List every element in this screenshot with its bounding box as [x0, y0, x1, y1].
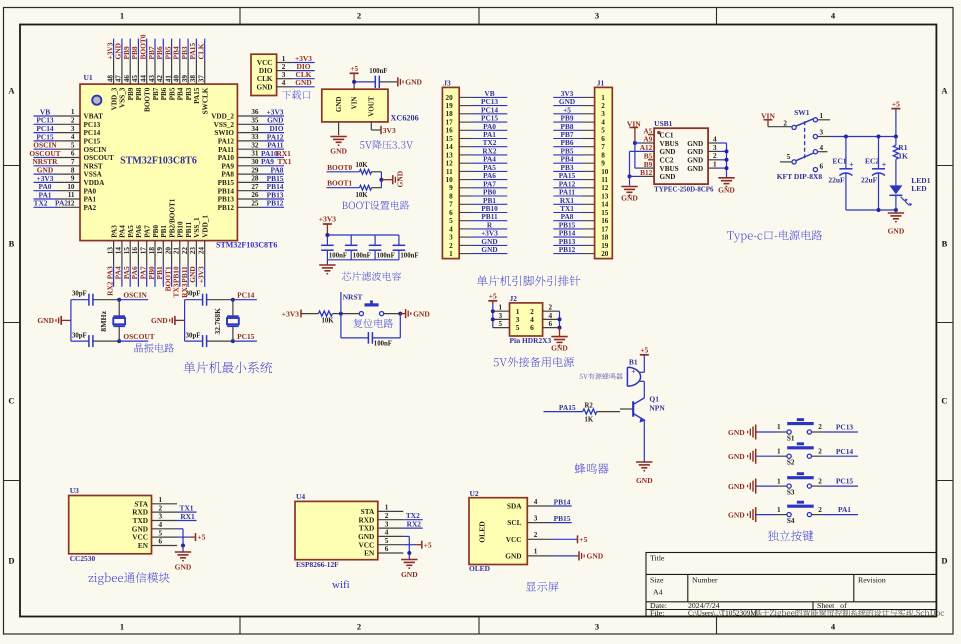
svg-text:KFT DIP-8X8: KFT DIP-8X8 — [777, 172, 823, 181]
svg-text:PA11: PA11 — [218, 146, 234, 154]
svg-text:8: 8 — [601, 151, 605, 159]
svg-text:4: 4 — [601, 119, 605, 127]
svg-text:PA10: PA10 — [218, 154, 235, 162]
svg-text:48: 48 — [106, 75, 114, 83]
svg-text:29: 29 — [251, 166, 259, 174]
svg-text:TYPEC-250D-8CP6: TYPEC-250D-8CP6 — [654, 186, 714, 193]
svg-text:Pin HDR2X3: Pin HDR2X3 — [510, 336, 552, 345]
svg-text:GND: GND — [175, 563, 192, 572]
svg-text:19: 19 — [601, 242, 609, 250]
svg-text:10K: 10K — [356, 192, 369, 199]
svg-text:Size: Size — [650, 576, 664, 585]
svg-text:PA15: PA15 — [559, 403, 576, 412]
svg-text:5: 5 — [787, 153, 791, 161]
svg-text:+3V3: +3V3 — [282, 309, 299, 318]
svg-text:PA15: PA15 — [193, 87, 201, 104]
svg-text:PB13: PB13 — [218, 196, 235, 204]
svg-text:2: 2 — [159, 504, 163, 512]
svg-text:File:: File: — [650, 609, 664, 618]
svg-text:PB0: PB0 — [152, 225, 160, 238]
svg-text:100nF: 100nF — [377, 252, 395, 259]
svg-text:18: 18 — [446, 110, 454, 118]
svg-text:1: 1 — [777, 477, 781, 485]
svg-text:1: 1 — [449, 250, 453, 258]
svg-text:1K: 1K — [898, 152, 908, 161]
svg-text:15: 15 — [123, 247, 131, 255]
svg-text:3: 3 — [713, 144, 717, 152]
svg-text:2: 2 — [385, 512, 389, 520]
svg-text:GND: GND — [405, 78, 422, 87]
svg-text:VDD_2: VDD_2 — [211, 113, 234, 121]
svg-text:GND: GND — [728, 428, 745, 437]
svg-text:S2: S2 — [787, 459, 795, 467]
svg-text:R2: R2 — [585, 403, 594, 410]
svg-text:+5: +5 — [892, 99, 900, 108]
svg-text:3: 3 — [282, 71, 286, 79]
svg-text:VBAT: VBAT — [84, 113, 104, 121]
svg-text:2: 2 — [818, 477, 822, 485]
svg-text:VDD_3: VDD_3 — [110, 87, 118, 110]
svg-text:3: 3 — [385, 520, 389, 528]
svg-text:46: 46 — [123, 75, 131, 83]
svg-text:EC2: EC2 — [865, 156, 879, 165]
svg-text:14: 14 — [601, 201, 609, 209]
svg-text:5: 5 — [516, 323, 520, 332]
svg-text:GND: GND — [728, 482, 745, 491]
svg-text:S3: S3 — [787, 489, 795, 497]
svg-text:PC14: PC14 — [84, 129, 101, 137]
svg-text:VBUS: VBUS — [660, 165, 679, 173]
svg-text:11: 11 — [446, 168, 453, 176]
svg-text:+5: +5 — [424, 540, 432, 549]
svg-text:3: 3 — [159, 513, 163, 521]
svg-text:2: 2 — [818, 423, 822, 431]
svg-text:PA2: PA2 — [55, 199, 68, 208]
svg-text:PA2: PA2 — [84, 204, 97, 212]
svg-text:100nF: 100nF — [400, 252, 418, 259]
svg-text:GND: GND — [687, 148, 703, 156]
svg-text:4: 4 — [282, 79, 286, 87]
svg-text:22: 22 — [181, 247, 189, 255]
svg-text:2: 2 — [818, 447, 822, 455]
svg-text:3: 3 — [71, 125, 75, 133]
svg-text:CC2: CC2 — [660, 157, 674, 165]
svg-text:PA4: PA4 — [119, 225, 127, 238]
svg-text:GND: GND — [151, 316, 168, 325]
svg-text:36: 36 — [251, 108, 259, 116]
svg-text:VSSA: VSSA — [84, 171, 103, 179]
svg-text:12: 12 — [67, 200, 75, 208]
svg-text:GND: GND — [413, 309, 430, 318]
svg-text:A: A — [941, 86, 948, 96]
svg-text:C: C — [8, 396, 14, 406]
svg-text:2: 2 — [357, 622, 361, 632]
svg-text:7: 7 — [601, 143, 605, 151]
svg-text:NPN: NPN — [649, 404, 665, 413]
svg-text:2: 2 — [282, 63, 286, 71]
svg-text:U1: U1 — [84, 73, 93, 82]
svg-text:SW1: SW1 — [794, 108, 810, 117]
svg-text:PA1: PA1 — [84, 196, 97, 204]
svg-text:LED: LED — [911, 184, 927, 193]
svg-text:U4: U4 — [296, 492, 305, 501]
svg-text:PB12: PB12 — [218, 204, 235, 212]
svg-text:5: 5 — [385, 537, 389, 545]
svg-text:PB15: PB15 — [218, 179, 235, 187]
svg-text:7: 7 — [71, 158, 75, 166]
svg-text:C: C — [941, 396, 947, 406]
svg-text:GND: GND — [396, 170, 405, 187]
svg-text:R1: R1 — [898, 143, 907, 152]
svg-text:45: 45 — [131, 75, 139, 83]
svg-text:17: 17 — [140, 247, 148, 255]
svg-text:VIN: VIN — [350, 97, 358, 110]
svg-text:13: 13 — [601, 192, 609, 200]
svg-text:+3V3: +3V3 — [197, 266, 206, 283]
svg-text:GND: GND — [687, 165, 703, 173]
svg-text:6: 6 — [820, 163, 824, 171]
svg-text:30pF: 30pF — [72, 333, 87, 340]
svg-text:2: 2 — [357, 11, 361, 21]
svg-text:22uF: 22uF — [828, 175, 845, 184]
svg-text:STM32F103C8T6: STM32F103C8T6 — [120, 156, 197, 167]
svg-text:2: 2 — [71, 117, 75, 125]
svg-text:35: 35 — [251, 117, 259, 125]
svg-text:32: 32 — [251, 141, 259, 149]
svg-text:VCC: VCC — [506, 535, 522, 544]
svg-text:44: 44 — [140, 75, 148, 83]
svg-text:8MHz: 8MHz — [99, 310, 108, 331]
svg-text:J3: J3 — [443, 79, 451, 88]
svg-text:39: 39 — [181, 75, 189, 83]
svg-text:J1: J1 — [597, 79, 605, 88]
svg-text:PC13: PC13 — [84, 121, 101, 129]
svg-text:1: 1 — [713, 161, 717, 169]
svg-text:PC15: PC15 — [84, 138, 101, 146]
svg-text:RX1: RX1 — [180, 512, 195, 521]
svg-text:+: + — [849, 160, 854, 169]
svg-text:Sheet of: Sheet of — [817, 601, 847, 610]
svg-text:OSCOUT: OSCOUT — [123, 332, 154, 341]
svg-text:2: 2 — [818, 506, 822, 514]
svg-text:PC13: PC13 — [836, 423, 854, 432]
svg-text:GND: GND — [687, 140, 703, 148]
svg-text:13: 13 — [446, 151, 454, 159]
svg-text:BOOT0: BOOT0 — [144, 87, 152, 112]
svg-text:4: 4 — [159, 521, 163, 529]
svg-text:Revision: Revision — [858, 576, 886, 585]
svg-text:41: 41 — [164, 75, 172, 83]
svg-text:15: 15 — [601, 209, 609, 217]
svg-text:CLK: CLK — [197, 43, 206, 59]
svg-text:1: 1 — [120, 11, 124, 21]
svg-text:100nF: 100nF — [353, 252, 371, 259]
svg-text:10K: 10K — [322, 317, 335, 324]
svg-text:PA3: PA3 — [105, 266, 114, 279]
svg-text:40: 40 — [173, 75, 181, 83]
svg-text:BOOT0: BOOT0 — [327, 163, 352, 172]
svg-text:OSCIN: OSCIN — [123, 290, 147, 299]
svg-text:33: 33 — [251, 133, 259, 141]
svg-text:5: 5 — [159, 529, 163, 537]
svg-text:TX1: TX1 — [278, 157, 292, 166]
svg-text:6: 6 — [549, 320, 553, 328]
svg-text:PB7: PB7 — [152, 87, 160, 100]
svg-text:1K: 1K — [585, 416, 594, 423]
svg-text:PA6: PA6 — [135, 225, 143, 238]
svg-text:GND: GND — [660, 148, 676, 156]
svg-text:NRST: NRST — [84, 162, 103, 170]
svg-text:32.768K: 32.768K — [213, 308, 222, 335]
svg-text:100nF: 100nF — [329, 252, 347, 259]
svg-text:PB5: PB5 — [168, 87, 176, 100]
svg-text:+5: +5 — [350, 64, 358, 73]
svg-text:SWCLK: SWCLK — [202, 87, 210, 114]
svg-text:1: 1 — [777, 447, 781, 455]
svg-text:42: 42 — [156, 75, 164, 83]
svg-text:B: B — [942, 239, 948, 249]
svg-text:24: 24 — [198, 247, 206, 255]
svg-text:GND: GND — [401, 570, 418, 579]
svg-text:PA0: PA0 — [84, 187, 97, 195]
svg-text:PA8: PA8 — [221, 171, 234, 179]
svg-text:10K: 10K — [356, 162, 369, 169]
svg-text:GND: GND — [295, 78, 311, 87]
svg-text:PA9: PA9 — [261, 157, 274, 166]
svg-text:GND: GND — [888, 226, 905, 235]
svg-text:U2: U2 — [470, 489, 479, 498]
svg-text:22uF: 22uF — [861, 175, 878, 184]
svg-text:3: 3 — [534, 514, 538, 522]
svg-text:+3V3: +3V3 — [319, 215, 336, 224]
svg-text:OLED: OLED — [469, 564, 490, 573]
svg-text:VCC: VCC — [257, 59, 273, 67]
svg-text:VDD_1: VDD_1 — [202, 215, 210, 238]
svg-text:S4: S4 — [787, 517, 795, 525]
svg-text:9: 9 — [71, 175, 75, 183]
svg-text:PA3: PA3 — [110, 225, 118, 238]
svg-text:1: 1 — [777, 506, 781, 514]
svg-text:6: 6 — [159, 538, 163, 546]
svg-text:GND: GND — [551, 344, 568, 353]
svg-text:PA7: PA7 — [144, 225, 152, 238]
svg-text:C:\Users\..\T1052309M: C:\Users\..\T1052309M — [688, 610, 757, 618]
svg-text:PB14: PB14 — [554, 497, 571, 506]
svg-text:6: 6 — [385, 545, 389, 553]
svg-text:GND: GND — [335, 97, 343, 113]
svg-text:16: 16 — [446, 127, 454, 135]
svg-text:SCL: SCL — [507, 518, 521, 527]
svg-text:VSS_3: VSS_3 — [119, 87, 127, 108]
svg-text:OSCIN: OSCIN — [84, 146, 108, 154]
svg-text:VSS_1: VSS_1 — [193, 217, 201, 238]
svg-text:10: 10 — [67, 183, 75, 191]
svg-text:SDA: SDA — [507, 502, 522, 511]
svg-text:6: 6 — [71, 150, 75, 158]
svg-text:30: 30 — [251, 158, 259, 166]
svg-text:PB14: PB14 — [218, 187, 235, 195]
svg-text:+5: +5 — [197, 533, 205, 542]
svg-text:19: 19 — [446, 102, 454, 110]
svg-text:PB12: PB12 — [267, 199, 284, 208]
svg-text:13: 13 — [106, 247, 114, 255]
svg-text:2: 2 — [549, 304, 553, 312]
svg-text:U3: U3 — [70, 486, 79, 495]
svg-text:14: 14 — [115, 247, 123, 255]
svg-text:A4: A4 — [653, 588, 663, 597]
svg-text:12: 12 — [446, 160, 454, 168]
svg-text:CLK: CLK — [257, 75, 273, 83]
svg-text:5: 5 — [449, 217, 453, 225]
svg-text:+: + — [882, 160, 887, 169]
svg-text:25: 25 — [251, 200, 259, 208]
svg-text:RX2: RX2 — [407, 519, 422, 528]
svg-text:3: 3 — [499, 312, 503, 320]
svg-text:4: 4 — [71, 133, 75, 141]
svg-text:20: 20 — [164, 247, 172, 255]
svg-text:8: 8 — [71, 166, 75, 174]
svg-text:14: 14 — [446, 143, 454, 151]
svg-text:12: 12 — [601, 184, 609, 192]
svg-text:30pF: 30pF — [186, 290, 201, 297]
svg-text:1: 1 — [159, 496, 163, 504]
svg-text:20: 20 — [601, 250, 609, 258]
svg-text:EC1: EC1 — [832, 156, 846, 165]
svg-text:NRST: NRST — [343, 292, 363, 301]
svg-text:10: 10 — [446, 176, 454, 184]
svg-text:Number: Number — [692, 576, 718, 585]
svg-text:1: 1 — [601, 94, 605, 102]
svg-text:+: + — [631, 366, 635, 375]
svg-text:VBUS: VBUS — [660, 140, 679, 148]
svg-text:B: B — [9, 239, 15, 249]
svg-text:16: 16 — [131, 247, 139, 255]
svg-text:GND: GND — [505, 552, 521, 561]
svg-text:GND: GND — [636, 476, 653, 485]
svg-text:PB11: PB11 — [180, 266, 189, 283]
svg-text:D: D — [8, 556, 14, 566]
svg-text:28: 28 — [251, 175, 259, 183]
svg-text:1: 1 — [120, 622, 124, 632]
svg-text:1: 1 — [820, 112, 824, 120]
svg-text:37: 37 — [198, 75, 206, 83]
svg-text:PB1: PB1 — [160, 225, 168, 238]
svg-text:26: 26 — [251, 191, 259, 199]
svg-text:4: 4 — [534, 498, 538, 506]
svg-text:7: 7 — [449, 201, 453, 209]
svg-text:17: 17 — [446, 119, 454, 127]
svg-text:38: 38 — [189, 75, 197, 83]
svg-text:wifi: wifi — [332, 579, 350, 591]
svg-text:S1: S1 — [787, 434, 795, 442]
svg-text:PC14: PC14 — [237, 290, 255, 299]
svg-text:8: 8 — [449, 192, 453, 200]
svg-text:GND: GND — [481, 245, 497, 254]
svg-text:PA1: PA1 — [838, 505, 851, 514]
svg-text:100nF: 100nF — [369, 68, 387, 75]
svg-text:15: 15 — [446, 135, 454, 143]
svg-text:GND: GND — [728, 510, 745, 519]
svg-text:PA12: PA12 — [218, 138, 235, 146]
svg-text:ESP8266-12F: ESP8266-12F — [296, 560, 339, 569]
svg-text:1: 1 — [777, 423, 781, 431]
svg-text:GND: GND — [257, 83, 273, 91]
svg-text:GND: GND — [37, 316, 54, 325]
svg-text:CC2530: CC2530 — [70, 554, 96, 563]
svg-text:10: 10 — [601, 168, 609, 176]
svg-text:100nF: 100nF — [374, 340, 392, 347]
svg-text:4: 4 — [549, 312, 553, 320]
svg-text:GND: GND — [687, 157, 703, 165]
svg-text:1: 1 — [385, 504, 389, 512]
svg-text:PB6: PB6 — [160, 87, 168, 100]
svg-text:47: 47 — [115, 75, 123, 83]
svg-text:18: 18 — [148, 247, 156, 255]
svg-text:5: 5 — [499, 320, 503, 328]
svg-text:2: 2 — [783, 120, 787, 128]
svg-text:3: 3 — [595, 622, 599, 632]
svg-text:4: 4 — [449, 225, 453, 233]
svg-text:PB9: PB9 — [127, 87, 135, 100]
svg-text:23: 23 — [189, 247, 197, 255]
svg-text:43: 43 — [148, 75, 156, 83]
svg-text:19: 19 — [156, 247, 164, 255]
svg-text:TX2: TX2 — [34, 199, 48, 208]
svg-text:EN: EN — [364, 549, 375, 558]
svg-text:30pF: 30pF — [72, 290, 87, 297]
svg-text:B12: B12 — [640, 168, 653, 177]
svg-text:GND: GND — [587, 552, 604, 561]
svg-text:2: 2 — [449, 242, 453, 250]
svg-text:3: 3 — [820, 128, 824, 136]
svg-text:PB12: PB12 — [559, 245, 576, 254]
svg-text:1: 1 — [282, 55, 286, 63]
svg-text:PC15: PC15 — [237, 332, 255, 341]
svg-text:PB3: PB3 — [185, 87, 193, 100]
svg-text:PC14: PC14 — [836, 447, 854, 456]
svg-text:+5: +5 — [640, 346, 648, 355]
svg-text:VSS_2: VSS_2 — [214, 121, 235, 129]
svg-text:2: 2 — [534, 531, 538, 539]
svg-text:GND: GND — [330, 147, 347, 156]
svg-text:17: 17 — [601, 225, 609, 233]
svg-text:J2: J2 — [510, 294, 518, 303]
svg-text:6: 6 — [449, 209, 453, 217]
svg-text:3: 3 — [595, 11, 599, 21]
svg-text:SWIO: SWIO — [214, 129, 234, 137]
svg-text:GND: GND — [621, 194, 638, 203]
svg-text:6: 6 — [601, 135, 605, 143]
svg-text:4: 4 — [713, 136, 717, 144]
svg-text:D: D — [941, 556, 947, 566]
svg-text:DIO: DIO — [259, 67, 273, 75]
svg-text:XC6206: XC6206 — [391, 114, 419, 123]
svg-text:PB4: PB4 — [177, 87, 185, 100]
svg-text:4: 4 — [820, 144, 824, 152]
svg-text:34: 34 — [251, 125, 259, 133]
svg-text:GND: GND — [728, 452, 745, 461]
svg-text:VDDA: VDDA — [84, 179, 106, 187]
svg-text:20: 20 — [446, 94, 454, 102]
svg-text:GND: GND — [718, 186, 735, 195]
svg-text:+5: +5 — [579, 535, 587, 544]
svg-text:6: 6 — [530, 323, 534, 332]
svg-text:B1: B1 — [629, 358, 638, 367]
svg-text:16: 16 — [601, 217, 609, 225]
svg-text:STM32F103C8T6: STM32F103C8T6 — [216, 241, 277, 250]
svg-text:+5: +5 — [489, 292, 497, 301]
svg-text:2: 2 — [601, 102, 605, 110]
